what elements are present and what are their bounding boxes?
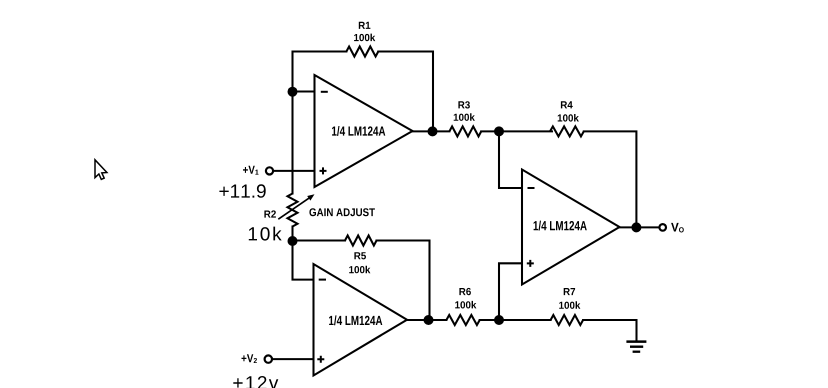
- op-amp U3 1/4 LM124A: [522, 170, 620, 285]
- wire: U1 inverting node up and over to R1 left: [293, 52, 347, 93]
- output terminal Vo: [659, 223, 683, 233]
- junction: node B (R2/R5/U2 inverting): [288, 236, 298, 246]
- resistor R5 100k: [345, 236, 377, 274]
- wire: R3 right to node C: [481, 130, 500, 132]
- wire: +V2 terminal to U2 non-inverting input: [272, 358, 314, 360]
- op-amp U2 1/4 LM124A: [314, 264, 408, 376]
- junction: U3 output node: [631, 222, 641, 232]
- wire: U1 output to R3 left: [412, 130, 450, 132]
- resistor R3 100k: [449, 101, 481, 136]
- wire: R5 right end down to U2 output node: [377, 241, 430, 321]
- wire: R2 bottom to node B: [291, 227, 293, 243]
- wire: node D up to U3 non-inverting input: [499, 263, 523, 320]
- wire: node D to R7 left: [499, 319, 551, 321]
- op-amp U1 1/4 LM124A: [315, 75, 413, 187]
- wire: R7 right over to ground: [583, 320, 636, 341]
- resistor R2 10k gain-adjust potentiometer: [264, 194, 314, 227]
- wire: node B to R5 left: [293, 239, 346, 241]
- input terminal +V1: [243, 166, 273, 175]
- annotation: 10k (R2 value): [249, 227, 282, 241]
- label: GAIN ADJUST: [309, 208, 375, 216]
- junction: U2 output node: [424, 315, 434, 325]
- wire: node B down to U2 inverting input: [293, 241, 315, 280]
- wire: U1 inverting input stub: [293, 90, 316, 92]
- wire: node C to R4 left: [499, 130, 552, 132]
- ground: [626, 342, 646, 352]
- junction: node C (R3/R4/U3 inverting): [494, 126, 504, 136]
- input terminal +V2: [242, 354, 272, 363]
- wire: node C down to U3 inverting input: [499, 131, 523, 188]
- wire: inverting node down to R2 top: [291, 92, 293, 194]
- resistor R6 100k: [446, 288, 479, 325]
- resistor R4 100k: [550, 101, 584, 136]
- mouse cursor: [95, 160, 107, 180]
- annotation: +11.9 (voltage at +V1): [219, 184, 265, 198]
- wire: U2 output to R6 left: [406, 319, 446, 321]
- wire: R6 right to node D: [480, 319, 500, 321]
- junction: U1 inverting input node: [288, 87, 298, 97]
- junction: U1 output node: [428, 126, 438, 136]
- wire: R1 right end down to U1 output node: [378, 52, 433, 132]
- resistor R1 100k: [346, 22, 378, 57]
- wire: R4 right end down to U3 output node: [584, 131, 637, 227]
- wire: +V1 terminal to U1 non-inverting input: [274, 170, 316, 172]
- resistor R7 100k: [551, 288, 583, 325]
- annotation: +12v (voltage at +V2): [233, 376, 278, 388]
- wire: U3 output to Vo terminal: [619, 226, 659, 228]
- junction: node D (R6/R7/U3 non-inverting): [494, 315, 504, 325]
